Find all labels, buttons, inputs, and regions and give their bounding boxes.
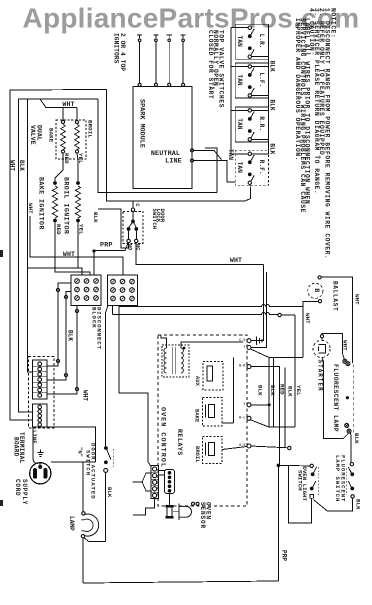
svg-text:BLK: BLK [354,499,361,510]
scan mark left 1 [0,250,3,257]
svg-text:LINE: LINE [31,430,38,444]
wire PRP [94,243,128,251]
svg-text:BROIL: BROIL [87,120,94,138]
door actuated switch S4 [104,446,114,472]
notice text block [294,8,336,259]
wire valve to bake ignitor [55,153,63,181]
wire spark terminal 1 to junction [194,150,222,159]
wire ballast top WHT [321,277,352,363]
svg-text:LAMP: LAMP [68,516,75,531]
wire PRP to block [93,251,95,275]
svg-text:WHT: WHT [304,313,311,324]
label TAN feed [227,149,234,160]
door lock NO contact [127,231,130,243]
sensor grommet [166,505,174,518]
svg-text:LINE: LINE [165,158,182,166]
svg-text:YEL: YEL [78,224,85,235]
wire section corner riser [205,148,217,193]
label STARTER [317,360,324,392]
wire plug to lamp run [51,461,96,463]
starter element [319,345,326,354]
svg-text:WHT: WHT [62,101,74,108]
wire bake ignitor to block [55,222,90,275]
label SUPPLY CORD [14,479,28,505]
door lock switch S1 box [123,212,143,244]
disconnect block A [71,275,101,306]
svg-text:BAKE: BAKE [194,409,200,423]
svg-text:BLK: BLK [67,330,74,341]
wire neutral riser [47,427,96,462]
wire WHT left border bus [9,90,107,421]
broil ignitor junction [76,181,80,185]
wire door lock NO return [98,209,129,248]
svg-text:WHT: WHT [230,257,242,264]
oven control box [158,335,247,506]
label OVEN CONTROL [158,407,166,468]
wire lamp branch to door switch [84,538,106,542]
spark module U1 box [133,87,192,189]
wire YEL riser [294,315,296,427]
wire oven light switch loop [288,466,311,523]
label YEL ignitor wire [78,224,85,235]
relay AUX box [203,362,223,391]
wire strip to sensor connector [158,471,164,475]
bake ignitor junction [53,181,57,185]
scan mark left 2 [0,500,3,506]
wire bus to door lock C [132,201,134,208]
svg-text:C-D: C-D [239,339,245,343]
label FLUORESCENT LAMP [332,364,339,432]
fluorescent lamp top pins [343,359,350,365]
label C [134,203,141,207]
svg-text:SWITCH: SWITCH [85,450,92,476]
label DUAL VALVE [29,125,42,145]
svg-text:BLOCK: BLOCK [91,307,98,328]
svg-text:BROIL: BROIL [194,446,200,463]
svg-text:BLK: BLK [269,100,276,111]
starter S1 circle [313,340,330,357]
svg-text:IGNITORS: IGNITORS [113,33,120,64]
svg-text:BROIL IGNITOR: BROIL IGNITOR [62,177,69,234]
svg-text:PRP: PRP [100,241,113,249]
label 2 OR 4 TOP IGNITORS [113,33,126,71]
svg-text:BALLAST: BALLAST [331,281,338,311]
svg-text:TAN: TAN [236,36,243,47]
door lock arm NO [127,222,133,231]
svg-text:RELAYS: RELAYS [176,429,183,456]
wire PRP riser [277,465,279,581]
wire block B to door switch [106,306,108,447]
wire broil relay to T6 [222,447,247,450]
svg-text:CORD: CORD [14,479,21,496]
label BROIL coil [87,120,94,138]
label WHT ignitor wire [27,203,34,214]
wire third left bus [28,99,33,372]
svg-text:STARTER: STARTER [317,360,324,392]
wire lamp bottom drop [82,538,84,583]
wire lamp top riser [82,462,84,512]
ballast B1 circle [308,283,323,298]
wire BLK inner border bus [18,99,98,412]
svg-text:"N": "N" [76,447,82,457]
wire BLK link 3 [252,139,276,154]
label BAKE relay [194,409,200,423]
wire T2 to ballast return [251,349,304,358]
label BROIL relay [194,446,200,463]
label BROIL IGNITOR [62,177,69,234]
sensor connector pins [165,470,175,494]
relay connector strip [151,466,159,499]
dual valve broil lower terminal [75,150,78,153]
svg-text:BLK: BLK [256,385,263,396]
svg-text:PRP: PRP [281,550,288,561]
broil ignitor lower junction [76,219,80,223]
decorative watermark [23,3,360,34]
wire TAN left riser [230,28,232,154]
label DOOR LOCK SWITCH [151,209,166,230]
label NO [127,244,133,251]
label BLK left [67,330,74,341]
svg-text:R.R.: R.R. [258,116,265,131]
wire bottom bus [83,581,278,583]
svg-text:L.F.: L.F. [258,73,265,88]
wire block to terminal strip 3 [47,306,79,395]
svg-text:BLK: BLK [269,143,276,154]
bake ignitor lower junction [53,219,57,223]
wire T4 to BLK riser [251,358,271,428]
wire WHT riser to T2 [251,272,267,348]
label RED ignitor wire [55,224,62,235]
svg-text:TAN: TAN [236,75,243,86]
label BLK riser 2 [269,385,276,396]
dual valve bake coil terminal [61,120,64,123]
svg-text:J: J [243,346,245,350]
wire fl switch bottom [314,498,353,511]
svg-text:B-L: B-L [239,416,245,420]
door lock C terminal [131,208,134,211]
oven sensor probe [173,504,192,521]
transformer T1 [161,335,243,377]
svg-text:BLK: BLK [287,386,294,397]
label DISCONNECT BLOCK [91,307,103,350]
wire ballast bottom WHT [303,301,318,357]
spark module right terminal 1 [191,149,194,152]
wire strip bottom lead [133,499,155,516]
supply cord plug P1 [30,463,51,484]
svg-text:RED: RED [63,153,70,164]
label BLK door lock [92,212,99,223]
label TERMINAL BOARD [13,432,26,464]
svg-text:RED: RED [55,224,62,235]
svg-text:TAN: TAN [227,149,234,160]
relay BAKE box [203,398,223,427]
dual valve broil coil element [75,125,80,150]
label WHT mid [63,251,75,258]
bake ignitor R1 element [52,186,57,218]
svg-text:BLK: BLK [269,61,276,72]
wire bus upper to ballast [119,305,303,307]
door lock common junction [131,211,135,223]
label FLUORESCENT LAMP SWITCH [334,455,346,502]
label NEUTRAL LINE [151,150,182,166]
wire BLK link 1 [252,57,276,72]
starter top terminal [320,335,323,341]
label WHT ballast left [304,313,311,324]
top valve switch R.R. [231,107,269,142]
wire door switch drop [105,473,107,542]
svg-text:B: B [313,288,320,292]
label TOP VALVE SWITCHES [207,30,225,108]
svg-text:SWITCH: SWITCH [296,470,303,491]
label OVEN SENSOR [199,502,211,529]
wire T3 RED riser [251,367,279,466]
svg-text:SPARK MODULE: SPARK MODULE [138,99,146,148]
svg-text:O-S: O-S [239,444,245,448]
junction PRP [92,249,95,252]
wire spark terminal 2 TAN feed [194,161,236,183]
label BALLAST [331,281,338,311]
wire sensor connector drop [169,494,171,506]
label WHT dual valve feed [62,101,74,108]
door lock arm NC [134,222,139,231]
oven control sensor pins [192,502,200,505]
ground symbol [251,337,262,346]
svg-text:WHT: WHT [9,160,16,171]
svg-text:NC: NC [135,244,141,251]
top ignitors and leads [137,35,186,86]
oven light switch S3 [310,464,318,498]
svg-text:WHT: WHT [63,251,75,258]
top valve switch R.F. [231,150,269,185]
wire block to terminal strip 2 [47,292,71,381]
svg-text:TAN: TAN [236,118,243,129]
label DOOR ACTUATED SWITCH [85,443,97,500]
svg-text:SENSOR: SENSOR [199,502,206,529]
wire dual valve feed [40,99,77,120]
label SPARK MODULE [138,99,146,148]
wire starter return [322,358,349,439]
fluorescent lamp switch S2 [347,463,355,499]
svg-text:AUX: AUX [194,376,200,387]
label WHT left [82,390,89,401]
spark module right terminal 2 [191,159,194,162]
wire door lock NC to WHT run [136,243,263,265]
svg-text:BLK: BLK [353,433,360,444]
svg-text:LAMP SWITCH: LAMP SWITCH [334,455,341,502]
svg-text:BLK: BLK [92,212,99,223]
label BLK lamp [353,433,360,444]
svg-text:SWITCH: SWITCH [151,209,158,230]
svg-text:VALVE: VALVE [29,125,36,145]
fluorescent lamp mount [346,396,349,399]
svg-text:BLK: BLK [18,160,25,171]
terminal strip lower [33,404,48,427]
svg-text:FLUORESCENT LAMP: FLUORESCENT LAMP [332,364,339,432]
dual valve bake lower terminal [61,150,64,153]
label BLK riser 3 [287,386,294,397]
oven control pin labels [239,339,246,448]
svg-text:BAKE IGNITOR: BAKE IGNITOR [37,177,44,230]
svg-text:CLOSED FOR START: CLOSED FOR START [207,30,214,99]
wire bake relay to riser [222,358,234,423]
ballast top terminal [318,276,321,279]
wire riser extra [284,368,286,448]
svg-text:B-R: B-R [239,365,246,369]
label WHT run [230,257,242,264]
svg-text:BLK: BLK [106,487,113,498]
svg-text:IMPROPER AND DANGEROUS OPERATI: IMPROPER AND DANGEROUS OPERATION. [294,18,301,161]
wire block B drop 1 [112,306,114,315]
wire bus lower to YEL riser [113,313,296,317]
label N [76,447,82,457]
label BLK fl switch [354,499,361,510]
fluorescent lamp bottom pins [345,423,351,433]
wire R.F. output to bus [245,185,251,201]
label OVEN LIGHT SWITCH [296,467,308,502]
wire riser extra 2 [273,358,275,428]
label RED valve wire [63,153,70,164]
ballast bottom terminal [318,300,321,303]
svg-text:RED: RED [278,384,285,395]
svg-text:C: C [134,203,141,207]
dual valve broil coil terminal [75,120,78,123]
top valve switch L.R. [231,24,269,59]
label YEL riser [295,385,302,396]
label WHT starter [342,340,349,351]
ground symbol line [37,450,43,457]
label PRP riser [281,550,288,561]
label BAKE IGNITOR [37,177,44,230]
wire branch to block A [28,268,83,275]
oven lamp L1 [81,512,98,538]
wire outer right border and bottom bus BLK [107,90,246,202]
svg-text:WHT: WHT [27,203,34,214]
label RELAYS [176,429,183,456]
wire wedge lead [133,481,143,483]
wire T5 to YEL riser [251,420,296,427]
label AUX [194,376,200,387]
wire block B drop 2 to connector [119,306,151,467]
svg-text:BLK: BLK [269,385,276,396]
svg-text:WHT: WHT [342,340,349,351]
wire block to terminal strip 1 [47,283,71,366]
dual valve bake coil element [61,125,66,150]
connector wedge [142,473,151,491]
terminal strip upper [33,360,48,399]
wire terminal board to plug [33,427,38,464]
label BLK riser 1 [256,385,263,396]
wire broil ignitor to block [77,222,79,268]
door lock NC contact [135,231,138,243]
svg-text:YEL: YEL [295,385,302,396]
disconnect block B [108,275,138,306]
label LINE [31,430,38,444]
top valve switch L.F. [231,63,269,98]
label NC [135,244,141,251]
dual valve DV1 box [56,120,86,159]
label BAKE coil [48,128,55,143]
label B [313,288,320,292]
wire WHT to block [30,216,123,275]
wire T6 to connector [251,446,291,450]
wire inner right border and bottom bus [98,99,217,193]
wire lamp to switch BLK [349,433,352,463]
label LAMP [68,516,75,531]
fluorescent lamp boundary [353,365,355,433]
svg-text:L.R.: L.R. [258,34,265,49]
svg-text:BAKE: BAKE [48,128,55,143]
svg-text:BOARD: BOARD [13,437,20,457]
svg-text:WHT: WHT [82,390,89,401]
label YEL valve wire [77,153,84,164]
svg-text:TAN: TAN [236,162,243,173]
label BLK door switch [106,487,113,498]
oven control terminals [247,339,251,448]
wire lamp run to oven light switch [278,464,310,467]
wire BLK link 2 [252,96,276,111]
terminal board box [29,357,55,429]
svg-text:WHT: WHT [354,294,361,305]
label RED riser [278,384,285,395]
broil ignitor R2 element [75,186,80,218]
wire NC riser to T1 [251,265,264,341]
label WHT ballast right [354,294,361,305]
svg-text:OVEN CONTROL: OVEN CONTROL [158,407,166,468]
label PRP [100,241,113,249]
wire starter to lamp pins [322,334,344,360]
relay BROIL box [203,437,223,464]
junction PRP riser top [277,464,281,468]
wire valve to broil ignitor [77,153,78,181]
svg-text:R.F.: R.F. [258,160,265,175]
